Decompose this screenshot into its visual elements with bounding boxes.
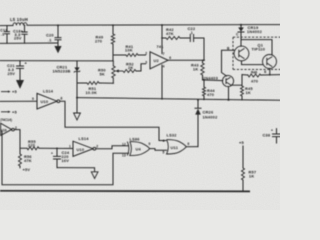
wire base node to Q2 <box>204 79 223 82</box>
wire U10a input <box>0 100 37 102</box>
wire U10a output to U11 pin4 <box>60 101 166 140</box>
wire Q1 internal collector <box>241 40 272 55</box>
diode CR19 <box>238 25 244 46</box>
inductor L5 <box>13 23 27 26</box>
wire C24 to arrow <box>57 168 95 172</box>
wire Q1b emitter out E <box>269 69 271 75</box>
wire pin4 column <box>161 65 163 99</box>
xor gate U4 LS86 <box>130 142 150 156</box>
capacitor C18 <box>22 25 27 43</box>
node dot x77/rail <box>76 97 78 99</box>
zener CR21 <box>76 61 78 83</box>
wire pin7 column <box>161 25 163 53</box>
wire op-amp output <box>168 59 204 61</box>
+5 arrow lower <box>1 111 8 113</box>
hollow arrow gnd bottom <box>91 172 98 179</box>
wire U11 out up to CR26 <box>186 146 198 148</box>
resistor R51 <box>77 82 113 84</box>
diode CR26 <box>195 100 201 147</box>
resistor R55 <box>27 147 39 150</box>
wire C22 down to output node <box>203 38 205 60</box>
transistor Q2 2N4403 <box>222 75 233 86</box>
dashed box Q1 <box>233 37 281 69</box>
wire ground bus left <box>0 42 58 44</box>
+5 arrow upper <box>1 91 8 93</box>
resistor R44 <box>203 80 205 99</box>
hollow arrow x77 <box>74 113 81 120</box>
bottom rail <box>0 190 250 193</box>
wire zener box down to rail and arrow <box>76 83 78 113</box>
op-amp U2 741 <box>150 52 168 69</box>
capacitor C19 <box>5 26 10 44</box>
wire U4 pin13 loop <box>2 131 129 185</box>
resistor R46 in emitter line <box>242 74 280 76</box>
wire U10b out to U4 pin12 <box>96 146 129 149</box>
resistor R52 <box>136 64 146 71</box>
wire Q2 top to Q1 base <box>222 50 235 76</box>
capacitor C24 <box>54 148 61 167</box>
or gate U11 LS32 <box>167 140 187 154</box>
wire top rail +V <box>0 25 280 26</box>
wire rail y60 <box>0 60 113 62</box>
capacitor C21 <box>17 61 24 80</box>
resistor R45 <box>241 75 243 100</box>
capacitor C22 <box>180 35 204 42</box>
node dot C18/rail <box>24 25 26 27</box>
wiper arrow R50 <box>118 70 123 72</box>
resistor R41 <box>113 54 146 56</box>
ground arrow under C20 <box>54 46 61 53</box>
wire Q2 to R45 node <box>231 84 243 86</box>
resistor R42 feedback <box>162 37 166 39</box>
wire output rail y98 <box>77 98 280 101</box>
ground arrow under C21 <box>16 80 24 89</box>
node dot C20/rail <box>57 24 59 26</box>
transistor Q1b <box>263 55 277 69</box>
resistor R49 <box>112 25 114 61</box>
wire U10c output to R55 <box>14 130 27 149</box>
wire U4 out to U11 pin5 <box>150 149 167 151</box>
wire Q1a emitter to Q1b base <box>242 61 263 65</box>
wire Q2 bottom to rail <box>228 87 230 100</box>
resistor R43 <box>203 60 205 80</box>
resistor R50 trimmer <box>112 61 114 83</box>
resistor R56 <box>19 148 21 168</box>
inverter U10a <box>37 93 57 109</box>
capacitor C20 <box>55 25 61 45</box>
inverter U10b <box>73 141 93 156</box>
transistor Q1a <box>234 46 249 61</box>
